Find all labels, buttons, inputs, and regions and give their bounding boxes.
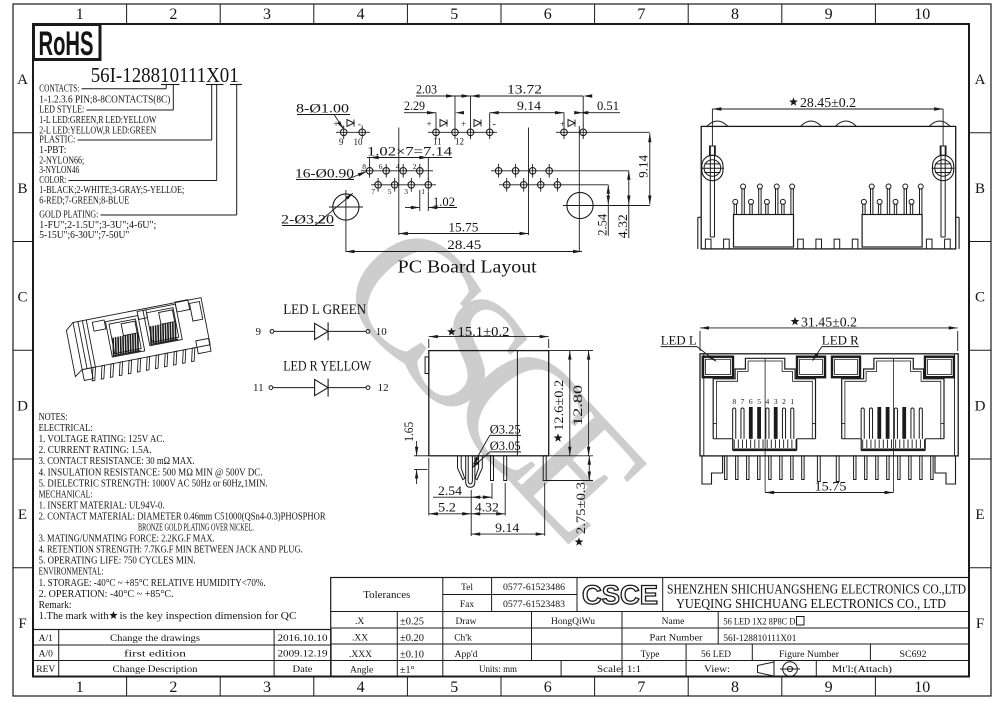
svg-text:3. MATING/UNMATING FORCE: 2.2K: 3. MATING/UNMATING FORCE: 2.2KG.F MAX. bbox=[39, 534, 215, 545]
svg-text:Name: Name bbox=[662, 617, 685, 627]
top view bottom notches bbox=[705, 239, 711, 249]
svg-text:5. DIELECTRIC STRENGTH: 1000V: 5. DIELECTRIC STRENGTH: 1000V AC 50Hz or… bbox=[39, 478, 268, 489]
svg-text:MECHANICAL:: MECHANICAL: bbox=[39, 489, 93, 500]
svg-text:CONTACTS:: CONTACTS: bbox=[39, 83, 79, 94]
svg-text:3: 3 bbox=[263, 679, 271, 696]
svg-text:5-15U";6-30U";7-50U": 5-15U";6-30U";7-50U" bbox=[39, 230, 129, 241]
svg-text:is the key inspection dimensio: is the key inspection dimension for QC bbox=[120, 611, 297, 622]
svg-text:6: 6 bbox=[544, 679, 552, 696]
svg-text:NOTES:: NOTES: bbox=[39, 412, 68, 423]
svg-text:5: 5 bbox=[757, 397, 761, 406]
view projection symbol bbox=[758, 662, 775, 676]
dim 28.45 top view bbox=[789, 97, 798, 105]
svg-text:2016.10.10: 2016.10.10 bbox=[278, 634, 328, 644]
svg-text:Ch'k: Ch'k bbox=[454, 634, 472, 644]
svg-text:.X: .X bbox=[355, 617, 364, 627]
svg-text:A: A bbox=[975, 72, 986, 88]
svg-text:BRONZE GOLD PLATING OVER NICKE: BRONZE GOLD PLATING OVER NICKEL. bbox=[138, 523, 254, 534]
front view port 1 bbox=[713, 358, 815, 439]
svg-text:CSCE: CSCE bbox=[582, 580, 658, 610]
tree line COLOR bbox=[69, 180, 217, 182]
svg-text:4: 4 bbox=[766, 397, 770, 406]
svg-text:F: F bbox=[976, 616, 984, 632]
svg-text:4. RETENTION STRENGTH: 7.7KG.F: 4. RETENTION STRENGTH: 7.7KG.F MIN BETWE… bbox=[39, 545, 303, 556]
svg-text:LED STYLE:: LED STYLE: bbox=[39, 105, 84, 116]
left pin cluster top row centerline bbox=[361, 170, 433, 172]
svg-text:1: 1 bbox=[76, 6, 84, 23]
svg-text:LED L GREEN: LED L GREEN bbox=[283, 302, 366, 318]
svg-text:Figure Number: Figure Number bbox=[779, 650, 840, 660]
svg-text:App'd: App'd bbox=[455, 650, 478, 660]
front view right foot bbox=[935, 456, 956, 484]
svg-text:0577-61523483: 0577-61523483 bbox=[503, 600, 565, 610]
top view pin group right bbox=[862, 215, 922, 248]
svg-text:ELECTRICAL:: ELECTRICAL: bbox=[39, 423, 93, 434]
svg-text:1-L LED:GREEN,R LED:YELLOW: 1-L LED:GREEN,R LED:YELLOW bbox=[39, 115, 156, 126]
svg-text:4: 4 bbox=[357, 6, 365, 23]
svg-text:1.The mark with: 1.The mark with bbox=[39, 611, 109, 622]
LED pad 12 bbox=[452, 129, 459, 136]
svg-text:1: 1 bbox=[790, 397, 794, 406]
front view left foot bbox=[702, 456, 723, 484]
svg-text:Tel: Tel bbox=[461, 583, 473, 593]
svg-text:-: - bbox=[493, 119, 496, 130]
svg-text:±0.20: ±0.20 bbox=[400, 633, 424, 644]
svg-text:9: 9 bbox=[825, 6, 833, 23]
svg-text:Change Description: Change Description bbox=[113, 665, 198, 675]
svg-text:13.72: 13.72 bbox=[507, 82, 542, 97]
svg-text:0577-61523486: 0577-61523486 bbox=[503, 583, 565, 593]
svg-text:1-PBT:: 1-PBT: bbox=[39, 145, 66, 156]
RoHS logo box bbox=[34, 25, 101, 60]
svg-text:15.75: 15.75 bbox=[448, 219, 478, 234]
svg-text:LED R YELLOW: LED R YELLOW bbox=[283, 359, 371, 375]
tree line CONTACTS bbox=[82, 88, 167, 90]
svg-text:View:: View: bbox=[704, 664, 730, 674]
side view base line extension bbox=[414, 455, 429, 457]
right cluster pins bottom row bbox=[503, 182, 510, 189]
svg-text:RoHS: RoHS bbox=[39, 25, 94, 63]
top view screw post left bbox=[702, 155, 723, 180]
LED window 3 bbox=[832, 357, 860, 378]
LED window 4 bbox=[925, 357, 954, 378]
svg-text:±0.25: ±0.25 bbox=[400, 617, 424, 628]
svg-text:Date: Date bbox=[293, 665, 313, 675]
svg-text:2: 2 bbox=[413, 162, 417, 171]
top view pin group left bbox=[734, 215, 794, 248]
svg-text:6: 6 bbox=[749, 397, 753, 406]
svg-text:Mt'l:(Attach): Mt'l:(Attach) bbox=[832, 664, 892, 674]
svg-text:3. CONTACT RESISTANCE: 30 mΩ M: 3. CONTACT RESISTANCE: 30 mΩ MAX. bbox=[39, 456, 195, 467]
LED pad 13 bbox=[467, 129, 474, 136]
svg-text:Angle: Angle bbox=[350, 666, 373, 676]
svg-text:E: E bbox=[18, 507, 27, 523]
svg-text:8: 8 bbox=[731, 6, 739, 23]
svg-text:3: 3 bbox=[263, 6, 271, 23]
svg-text:10: 10 bbox=[914, 679, 930, 696]
svg-text:Part Number: Part Number bbox=[650, 634, 704, 644]
svg-text:7: 7 bbox=[371, 187, 375, 196]
svg-text:first edition: first edition bbox=[124, 649, 186, 660]
svg-text:0.51: 0.51 bbox=[597, 98, 619, 113]
svg-text:28.45±0.2: 28.45±0.2 bbox=[800, 95, 856, 110]
svg-text:9: 9 bbox=[825, 679, 833, 696]
svg-text:9.14: 9.14 bbox=[517, 98, 542, 113]
svg-text:2. OPERATION: -40°C ~ +85°C.: 2. OPERATION: -40°C ~ +85°C. bbox=[39, 589, 174, 600]
dim 15.1 side view bbox=[447, 327, 456, 335]
svg-text:4.32: 4.32 bbox=[475, 500, 499, 515]
svg-text:2. CONTACT MATERIAL: DIAMETER: 2. CONTACT MATERIAL: DIAMETER 0.46mm C51… bbox=[39, 511, 326, 522]
svg-text:3: 3 bbox=[774, 397, 778, 406]
svg-text:PC Board Layout: PC Board Layout bbox=[398, 257, 537, 277]
svg-text:9.14: 9.14 bbox=[495, 520, 520, 535]
svg-text:7: 7 bbox=[637, 679, 645, 696]
side view shield legs bbox=[458, 456, 465, 480]
svg-text:SHENZHEN SHICHUANGSHENG ELECTR: SHENZHEN SHICHUANGSHENG ELECTRONICS CO.,… bbox=[667, 582, 966, 597]
svg-text:Change the drawings: Change the drawings bbox=[110, 634, 200, 644]
svg-text:LED R: LED R bbox=[822, 332, 859, 347]
grid column ticks bottom bbox=[126, 677, 128, 697]
svg-text:2: 2 bbox=[169, 679, 177, 696]
grid column ticks top bbox=[126, 4, 128, 24]
svg-text:56I-128810111X01: 56I-128810111X01 bbox=[91, 63, 239, 87]
svg-text:15.75: 15.75 bbox=[815, 479, 847, 494]
svg-text:6: 6 bbox=[379, 162, 383, 171]
svg-text:.XX: .XX bbox=[352, 634, 368, 644]
right cluster pins top row bbox=[495, 168, 502, 175]
svg-text:2009.12.19: 2009.12.19 bbox=[278, 650, 328, 660]
svg-text:7: 7 bbox=[741, 397, 745, 406]
svg-text:1. INSERT MATERIAL: UL94V-0.: 1. INSERT MATERIAL: UL94V-0. bbox=[39, 500, 165, 511]
svg-text:31.45±0.2: 31.45±0.2 bbox=[801, 315, 857, 330]
svg-text:11: 11 bbox=[253, 382, 264, 394]
svg-text:12.80: 12.80 bbox=[570, 385, 585, 426]
svg-text:Tolerances: Tolerances bbox=[363, 590, 410, 601]
front view port 2 bbox=[842, 358, 944, 439]
LED window 1 (LED L) bbox=[703, 357, 733, 378]
side view latch bump bbox=[425, 357, 429, 374]
svg-text:±0.10: ±0.10 bbox=[400, 650, 424, 661]
svg-text:Ø3.05: Ø3.05 bbox=[490, 438, 521, 453]
svg-text:1. VOLTAGE RATING: 125V AC.: 1. VOLTAGE RATING: 125V AC. bbox=[39, 434, 165, 445]
grid row ticks right bbox=[969, 132, 991, 134]
svg-text:2: 2 bbox=[169, 6, 177, 23]
svg-text:4.32: 4.32 bbox=[615, 214, 630, 238]
svg-text:5.2: 5.2 bbox=[438, 500, 456, 515]
top view body bbox=[701, 126, 956, 248]
svg-text:2.29: 2.29 bbox=[404, 98, 425, 113]
grid row ticks left bbox=[13, 132, 33, 134]
svg-text:Draw: Draw bbox=[455, 617, 476, 627]
right pin cluster top row centerline bbox=[491, 170, 629, 172]
svg-text:1.02×7=7.14: 1.02×7=7.14 bbox=[367, 144, 453, 159]
svg-text:7: 7 bbox=[637, 6, 645, 23]
svg-text:12.6±0.2: 12.6±0.2 bbox=[551, 380, 566, 431]
svg-text:Units: mm: Units: mm bbox=[479, 664, 517, 674]
svg-text:D: D bbox=[17, 398, 28, 414]
diode LED R pin 12 bbox=[366, 386, 370, 390]
svg-text:LED L: LED L bbox=[661, 332, 697, 347]
svg-text:2. CURRENT RATING: 1.5A.: 2. CURRENT RATING: 1.5A. bbox=[39, 445, 152, 456]
side view pins bbox=[491, 456, 494, 481]
svg-text:A/0: A/0 bbox=[39, 650, 54, 660]
svg-text:C: C bbox=[975, 290, 985, 306]
svg-text:1-BLACK;2-WHITE;3-GRAY;5-YELLO: 1-BLACK;2-WHITE;3-GRAY;5-YELLOE; bbox=[39, 185, 184, 196]
svg-text:6: 6 bbox=[544, 6, 552, 23]
svg-text:.XXX: .XXX bbox=[349, 650, 372, 660]
tree line PLASTIC bbox=[78, 139, 212, 141]
svg-text:8: 8 bbox=[732, 397, 736, 406]
svg-text:Remark:: Remark: bbox=[39, 600, 72, 611]
svg-text:6-RED;7-GREEN;8-BLUE: 6-RED;7-GREEN;8-BLUE bbox=[39, 196, 129, 207]
svg-text:56I-128810111X01: 56I-128810111X01 bbox=[723, 634, 796, 644]
svg-text:PLASTIC:: PLASTIC: bbox=[39, 135, 75, 146]
svg-text:12: 12 bbox=[455, 137, 464, 147]
svg-text:Scale: 1:1: Scale: 1:1 bbox=[597, 664, 641, 674]
svg-text:±1°: ±1° bbox=[400, 665, 415, 676]
top view side steps bbox=[697, 217, 699, 249]
svg-text:10: 10 bbox=[354, 137, 364, 147]
svg-text:10: 10 bbox=[376, 326, 388, 338]
mount hole right 3.20 bbox=[567, 192, 593, 218]
right pin cluster bottom row centerline bbox=[499, 184, 608, 186]
diode LED R bbox=[273, 387, 315, 389]
svg-text:2.54: 2.54 bbox=[594, 213, 609, 235]
LED pad row centerline left bbox=[336, 131, 370, 133]
diode LED L pin 10 bbox=[366, 330, 370, 334]
left cluster pins 8 6 4 2 bbox=[366, 168, 373, 175]
svg-text:3: 3 bbox=[404, 187, 408, 196]
svg-text:9: 9 bbox=[339, 137, 344, 147]
mount hole left 3.20 bbox=[333, 194, 359, 220]
title block outline bbox=[331, 578, 969, 677]
tree line LED STYLE bbox=[87, 109, 174, 111]
svg-text:YUEQING SHICHUANG ELECTRONICS: YUEQING SHICHUANG ELECTRONICS CO., LTD bbox=[676, 596, 946, 611]
svg-text:12: 12 bbox=[378, 382, 389, 394]
svg-text:1. STORAGE: -40°C ~ +85°C RELA: 1. STORAGE: -40°C ~ +85°C RELATIVE HUMID… bbox=[39, 578, 266, 589]
svg-text:1: 1 bbox=[76, 679, 84, 696]
svg-text:-: - bbox=[358, 119, 361, 129]
svg-text:4: 4 bbox=[357, 679, 365, 696]
front view body bbox=[700, 354, 958, 456]
svg-text:ENVIRONMENTAL:: ENVIRONMENTAL: bbox=[39, 567, 104, 578]
isometric view of connector bbox=[65, 297, 213, 384]
LED pad 9 bbox=[340, 129, 347, 136]
front view legs bbox=[725, 456, 727, 480]
svg-text:A: A bbox=[17, 72, 28, 88]
svg-text:5: 5 bbox=[450, 6, 458, 23]
LED pad row centerline middle bbox=[428, 131, 497, 133]
svg-text:9.14: 9.14 bbox=[635, 154, 650, 178]
svg-text:2.03: 2.03 bbox=[416, 82, 437, 97]
svg-text:8: 8 bbox=[731, 679, 739, 696]
LED window 2 bbox=[797, 357, 825, 378]
svg-text:B: B bbox=[17, 181, 27, 197]
dim 31.45 front view bbox=[791, 317, 800, 325]
svg-text:2-Ø3.20: 2-Ø3.20 bbox=[281, 212, 334, 227]
svg-text:2: 2 bbox=[782, 397, 786, 406]
top view screw post right bbox=[933, 155, 954, 180]
svg-text:1: 1 bbox=[421, 187, 425, 196]
svg-text:A/1: A/1 bbox=[39, 634, 54, 644]
svg-text:Fax: Fax bbox=[460, 600, 475, 610]
svg-text:HongQiWu: HongQiWu bbox=[551, 617, 595, 627]
svg-text:5: 5 bbox=[388, 187, 392, 196]
svg-text:+: + bbox=[427, 119, 432, 129]
svg-text:C: C bbox=[17, 290, 27, 306]
LED pad row centerline right bbox=[556, 131, 650, 133]
top view top bumps bbox=[707, 121, 728, 126]
front view middle posts bbox=[817, 456, 820, 482]
svg-text:8: 8 bbox=[362, 162, 366, 171]
svg-text:REV: REV bbox=[36, 665, 55, 675]
svg-text:Type: Type bbox=[641, 650, 660, 660]
svg-text:10: 10 bbox=[914, 6, 930, 23]
svg-text:1.65: 1.65 bbox=[401, 422, 416, 442]
svg-text:SC692: SC692 bbox=[900, 650, 927, 660]
svg-text:56 LED 1X2 8P8C D: 56 LED 1X2 8P8C D bbox=[723, 618, 795, 628]
svg-text:9: 9 bbox=[256, 326, 262, 338]
svg-text:B: B bbox=[975, 181, 985, 197]
svg-text:5. OPERATING LIFE: 750 CYCLES: 5. OPERATING LIFE: 750 CYCLES MIN. bbox=[39, 556, 196, 567]
svg-text:2.75±0.3: 2.75±0.3 bbox=[573, 482, 588, 534]
tree line GOLD PLATING bbox=[101, 214, 237, 216]
LED pad 15 bbox=[561, 129, 568, 136]
svg-text:Ø3.25: Ø3.25 bbox=[490, 421, 521, 436]
revision table bbox=[33, 630, 331, 677]
svg-text:56 LED: 56 LED bbox=[701, 650, 731, 660]
diode LED L bbox=[274, 330, 315, 332]
svg-text:GOLD PLATING:: GOLD PLATING: bbox=[39, 210, 98, 221]
svg-text:2.54: 2.54 bbox=[438, 483, 463, 498]
svg-text:+: + bbox=[461, 119, 466, 129]
svg-text:4. INSULATION RESISTANCE: 500: 4. INSULATION RESISTANCE: 500 MΩ MIN @ 5… bbox=[39, 467, 263, 478]
LED pad 11 bbox=[433, 129, 440, 136]
LED pad 10 bbox=[359, 129, 366, 136]
side view body bbox=[429, 351, 549, 456]
svg-text:D: D bbox=[975, 398, 986, 414]
svg-text:28.45: 28.45 bbox=[447, 237, 481, 252]
svg-text:16-Ø0.90: 16-Ø0.90 bbox=[295, 166, 354, 181]
LED pad 14 bbox=[486, 129, 493, 136]
part number digit underlines bbox=[161, 84, 171, 86]
LED pad 16 bbox=[580, 129, 587, 136]
svg-text:F: F bbox=[18, 616, 26, 632]
left pin cluster bottom row centerline bbox=[371, 184, 436, 186]
svg-text:5: 5 bbox=[450, 679, 458, 696]
side view middle prong bbox=[466, 456, 475, 488]
left cluster pins 7 5 3 1 bbox=[375, 182, 382, 189]
svg-text:E: E bbox=[975, 507, 984, 523]
svg-text:8-Ø1.00: 8-Ø1.00 bbox=[296, 101, 349, 116]
